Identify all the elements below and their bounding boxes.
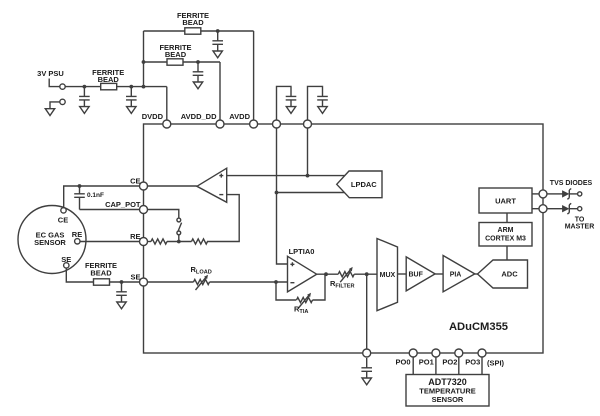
pin AVDD_DD (216, 120, 224, 128)
wire 3V PSU rail to DVDD (65, 87, 167, 120)
wire rail riser (143, 31, 145, 87)
wire switch to RE net (178, 235, 180, 242)
svg-text:UART: UART (495, 196, 516, 205)
svg-text:DVDD: DVDD (142, 112, 164, 121)
ADuCM355 chip outline (144, 124, 544, 353)
wire decoupling loop pin4 (277, 86, 292, 120)
op-amp U1 (197, 168, 227, 202)
pin filter cap (363, 349, 371, 357)
resistor R1 (192, 239, 208, 244)
svg-text:SE: SE (130, 273, 140, 282)
sensor terminal CE (61, 208, 66, 213)
resistor R2 (151, 239, 167, 244)
ground at connector (45, 109, 54, 116)
node RE switch tap (177, 240, 181, 244)
op-amp LPTIA0 (288, 256, 317, 292)
wire TIA feedback (276, 282, 296, 300)
pin CAP_POT (140, 206, 148, 214)
MUX block (377, 239, 398, 311)
capacitor C4 to ground (212, 31, 223, 58)
sensor terminal SE (64, 263, 69, 268)
svg-text:CE: CE (130, 177, 140, 186)
wire SE net (66, 268, 139, 282)
node SE to TIA (274, 280, 278, 284)
pin UART RX (539, 205, 547, 213)
switch S1 contact top (177, 218, 181, 222)
svg-text:BEAD: BEAD (182, 18, 204, 27)
wire LPTIA output (317, 273, 339, 275)
capacitor C7 to ground (116, 282, 127, 309)
svg-text:RLOAD: RLOAD (191, 265, 212, 276)
pin PO0 (409, 349, 417, 357)
wire pin4 drop to LPTIA plus (277, 128, 288, 264)
pin AVDD (250, 120, 258, 128)
resistor RFILTER variable (338, 267, 354, 282)
amplifier PIA (443, 256, 475, 292)
pin decouple 1 (273, 120, 281, 128)
wire UART TX (532, 193, 539, 195)
svg-text:MASTER: MASTER (565, 224, 595, 231)
wire CE pin to op-amp (148, 185, 197, 187)
ferrite bead FB4 (94, 279, 110, 285)
svg-text:SE: SE (61, 255, 71, 264)
terminal TX out (578, 192, 582, 196)
wire CE net (64, 186, 140, 208)
svg-text:CE: CE (58, 215, 68, 224)
wire RFILTER to MUX (354, 273, 377, 275)
svg-text:BEAD: BEAD (165, 50, 187, 59)
LPTIA0 minus mark (290, 282, 294, 284)
capacitor C2 to ground (126, 87, 137, 114)
pin PO2 (455, 349, 463, 357)
wire RLOAD to LPTIA minus (210, 281, 288, 283)
wire RX to diode (547, 208, 563, 210)
wire PIA to ADC (475, 273, 478, 275)
svg-text:SENSOR: SENSOR (34, 238, 66, 247)
connector J1 pin 2 (60, 99, 65, 104)
pin RE (140, 238, 148, 246)
wire PO0 to sensor (412, 357, 414, 375)
svg-text:BEAD: BEAD (90, 268, 112, 277)
connector J1 pin 1 (60, 84, 65, 89)
LPTIA0 plus mark (290, 262, 294, 266)
node row1 cap (216, 29, 220, 33)
svg-text:PO1: PO1 (419, 358, 434, 367)
svg-text:LPDAC: LPDAC (351, 180, 377, 189)
capacitor C6 to ground (317, 87, 328, 114)
pin PO1 (432, 349, 440, 357)
svg-text:PIA: PIA (450, 272, 462, 279)
wire UART RX (532, 208, 539, 210)
svg-text:BEAD: BEAD (98, 75, 120, 84)
wire PO3 to sensor (481, 357, 483, 375)
wire SE to R_LOAD (148, 281, 194, 283)
ADC block (478, 260, 528, 288)
wire filter tap drop (366, 274, 368, 349)
LPDAC block (337, 171, 382, 198)
svg-text:SENSOR: SENSOR (432, 395, 464, 404)
capacitor C5 to ground (286, 87, 297, 114)
svg-text:RE: RE (72, 230, 82, 239)
wire TIA feedback up (313, 274, 326, 300)
node PSU cap 2 (129, 85, 133, 89)
capacitor C8 to ground (361, 358, 372, 385)
wire cap to CAP_POT pin (80, 209, 140, 211)
EC gas sensor body (18, 206, 86, 274)
wire R1 to node (167, 241, 192, 243)
svg-text:ADuCM355: ADuCM355 (449, 321, 508, 333)
svg-text:RE: RE (130, 232, 140, 241)
ferrite bead FB2 (167, 59, 183, 65)
terminal RX out (578, 207, 582, 211)
svg-text:PO2: PO2 (442, 358, 457, 367)
resistor RLOAD variable (194, 275, 210, 290)
pin UART TX (539, 190, 547, 198)
wire TX to diode (547, 193, 563, 195)
wire 3V PSU lead (49, 79, 60, 87)
pin SE (140, 278, 148, 286)
svg-text:LPTIA0: LPTIA0 (289, 247, 315, 256)
node LPDAC lower tap (275, 191, 279, 195)
svg-text:AVDD: AVDD (229, 112, 250, 121)
svg-text:ADC: ADC (501, 270, 518, 279)
wire MUX to BUF (398, 273, 407, 275)
svg-text:0.1nF: 0.1nF (87, 192, 104, 199)
pin PO3 (478, 349, 486, 357)
wire ARM to UART (506, 213, 508, 223)
capacitor C3 to ground (193, 62, 204, 89)
switch S1 contact bottom (177, 231, 181, 235)
svg-text:RTIA: RTIA (294, 305, 308, 316)
capacitor 0.1nF (74, 186, 85, 210)
svg-text:CAP_POT: CAP_POT (105, 200, 141, 209)
svg-text:PO0: PO0 (395, 358, 410, 367)
sensor terminal RE (75, 239, 80, 244)
wire J1 pin2 to ground (50, 102, 60, 109)
node SE cap (120, 280, 124, 284)
node rail branch (142, 85, 146, 89)
wire op-amp plus input (227, 175, 345, 177)
pin CE (140, 182, 148, 190)
wire R2 to RE pin (148, 241, 152, 243)
svg-text:ARM: ARM (498, 227, 514, 234)
pin DVDD (163, 120, 171, 128)
svg-text:3V PSU: 3V PSU (37, 69, 64, 78)
wire pin5 drop (307, 128, 309, 176)
wire D1 to terminal (569, 193, 577, 195)
diode D1 TVS (562, 189, 571, 200)
switch S1 blade (178, 223, 182, 232)
svg-text:TO: TO (575, 217, 585, 224)
wire AVDD branch (144, 31, 254, 120)
svg-text:AVDD_DD: AVDD_DD (181, 112, 217, 121)
node PSU cap 1 (83, 85, 87, 89)
wire ADC to ARM (506, 246, 508, 260)
wire BUF to PIA (435, 273, 443, 275)
wire op-amp feedback (207, 195, 239, 242)
wire PO1 to sensor (435, 357, 437, 375)
buffer BUF (406, 257, 435, 291)
wire RE net (80, 241, 139, 243)
svg-text:ADT7320: ADT7320 (428, 377, 467, 387)
node 0.1nF tap (78, 184, 82, 188)
pin decouple 2 (304, 120, 312, 128)
node pin5 to plus wire (306, 174, 310, 178)
wire PO2 to sensor (458, 357, 460, 375)
op-amp U1 minus mark (219, 194, 223, 196)
wire LPDAC lower output (277, 192, 346, 194)
svg-text:(SPI): (SPI) (487, 358, 505, 367)
svg-text:PO3: PO3 (465, 358, 480, 367)
UART block (479, 188, 532, 213)
svg-text:CORTEX M3: CORTEX M3 (485, 235, 526, 242)
node filter tap (365, 272, 369, 276)
node row2 cap (196, 60, 200, 64)
ferrite bead FB3 (185, 28, 201, 34)
wire D2 to terminal (569, 208, 577, 210)
wire CAP_POT to switch (148, 210, 179, 219)
capacitor C1 to ground (79, 87, 90, 114)
diode D2 TVS (562, 203, 571, 214)
wire AVDD_DD branch (144, 62, 221, 120)
svg-text:MUX: MUX (380, 272, 396, 279)
node LPTIA output (324, 272, 328, 276)
svg-text:BUF: BUF (409, 272, 424, 279)
resistor RTIA variable (297, 293, 313, 308)
node row2 branch (142, 60, 146, 64)
wire decoupling loop pin5 (308, 86, 323, 120)
svg-text:TVS DIODES: TVS DIODES (550, 180, 593, 187)
op-amp U1 plus mark (219, 174, 223, 178)
ferrite bead FB1 (101, 83, 117, 89)
ARM Cortex M3 block (479, 223, 532, 247)
ADT7320 block (406, 375, 489, 407)
